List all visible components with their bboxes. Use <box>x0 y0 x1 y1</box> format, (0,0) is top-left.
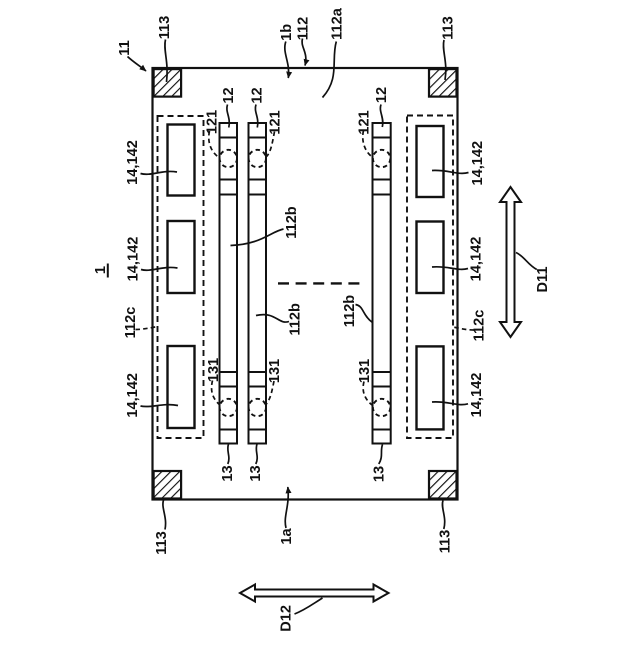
svg-text:11: 11 <box>117 40 133 55</box>
svg-text:12: 12 <box>221 87 237 103</box>
svg-text:113: 113 <box>438 530 454 554</box>
svg-text:12: 12 <box>249 87 265 103</box>
svg-text:112c: 112c <box>123 307 139 339</box>
svg-text:112b: 112b <box>288 303 304 336</box>
svg-text:131: 131 <box>357 359 373 383</box>
svg-text:121: 121 <box>268 110 284 134</box>
svg-text:113: 113 <box>154 531 170 555</box>
svg-text:14,142: 14,142 <box>125 373 141 418</box>
svg-text:13: 13 <box>220 465 236 481</box>
svg-text:112: 112 <box>296 17 312 41</box>
svg-text:113: 113 <box>441 16 457 40</box>
svg-text:14,142: 14,142 <box>470 141 486 186</box>
svg-text:14,142: 14,142 <box>125 140 141 185</box>
svg-text:131: 131 <box>267 359 283 383</box>
svg-text:1: 1 <box>93 266 109 274</box>
svg-text:14,142: 14,142 <box>469 237 485 282</box>
svg-text:112b: 112b <box>342 295 358 328</box>
svg-text:12: 12 <box>374 87 390 103</box>
svg-text:121: 121 <box>356 110 372 134</box>
svg-text:121: 121 <box>205 110 221 134</box>
svg-text:112a: 112a <box>330 7 346 40</box>
svg-text:13: 13 <box>248 465 264 481</box>
svg-text:1a: 1a <box>279 528 295 545</box>
svg-text:112b: 112b <box>284 206 300 239</box>
svg-text:14,142: 14,142 <box>126 237 142 282</box>
svg-text:1b: 1b <box>279 24 295 41</box>
svg-text:D12: D12 <box>279 605 295 632</box>
svg-text:131: 131 <box>206 358 222 382</box>
svg-text:13: 13 <box>372 466 388 482</box>
svg-text:112c: 112c <box>471 310 487 342</box>
svg-text:14,142: 14,142 <box>469 373 485 418</box>
svg-text:D11: D11 <box>535 267 551 293</box>
svg-text:113: 113 <box>157 16 173 40</box>
